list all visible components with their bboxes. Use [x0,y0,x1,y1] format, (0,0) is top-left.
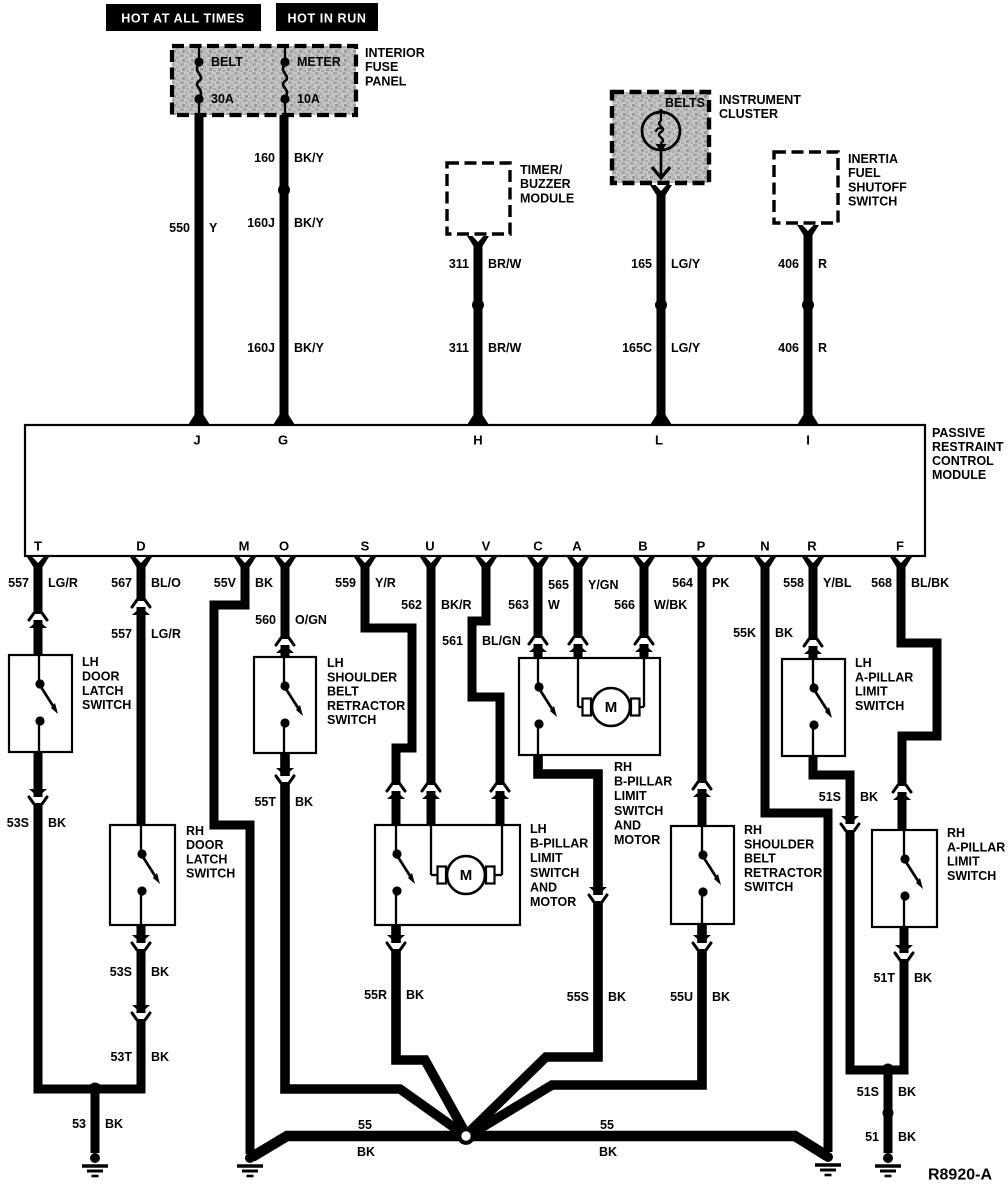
svg-text:BK: BK [255,576,273,590]
svg-text:BK: BK [898,1085,916,1099]
svg-text:BK/R: BK/R [441,598,472,612]
svg-text:SWITCH: SWITCH [855,699,904,713]
svg-text:564: 564 [672,576,693,590]
svg-text:Y/R: Y/R [375,576,396,590]
svg-text:55: 55 [358,1118,372,1132]
svg-text:51S: 51S [857,1085,879,1099]
svg-text:BK: BK [151,1050,169,1064]
svg-text:BELT: BELT [327,685,359,699]
svg-text:LG/Y: LG/Y [671,257,701,271]
svg-text:10A: 10A [297,92,320,106]
svg-text:HOT AT ALL TIMES: HOT AT ALL TIMES [121,12,244,26]
svg-text:SWITCH: SWITCH [848,195,897,209]
svg-text:SWITCH: SWITCH [82,698,131,712]
svg-text:H: H [473,433,482,448]
svg-text:INERTIA: INERTIA [848,152,898,166]
svg-text:55K: 55K [733,626,756,640]
svg-text:BK: BK [48,816,66,830]
svg-text:Y: Y [209,221,218,235]
svg-text:160J: 160J [247,216,275,230]
svg-text:SHUTOFF: SHUTOFF [848,180,907,194]
svg-text:SHOULDER: SHOULDER [744,837,814,851]
svg-text:SWITCH: SWITCH [947,869,996,883]
svg-text:557: 557 [8,576,29,590]
svg-text:CONTROL: CONTROL [932,454,994,468]
svg-text:51S: 51S [819,790,841,804]
svg-text:R: R [807,539,817,554]
svg-text:M: M [605,699,618,716]
svg-text:53T: 53T [110,1050,132,1064]
svg-text:53S: 53S [7,816,29,830]
svg-text:B-PILLAR: B-PILLAR [530,837,588,851]
svg-text:SWITCH: SWITCH [614,804,663,818]
svg-text:BR/W: BR/W [488,341,522,355]
svg-text:W/BK: W/BK [654,598,687,612]
svg-text:N: N [760,539,769,554]
svg-text:MOTOR: MOTOR [530,895,576,909]
svg-text:V: V [482,539,491,554]
svg-text:S: S [361,539,370,554]
svg-text:SWITCH: SWITCH [744,880,793,894]
svg-text:TIMER/: TIMER/ [520,163,563,177]
svg-text:BK: BK [914,971,932,985]
svg-text:560: 560 [255,613,276,627]
svg-text:LIMIT: LIMIT [855,685,888,699]
svg-text:BK: BK [105,1117,123,1131]
svg-text:METER: METER [297,55,341,69]
svg-text:160: 160 [254,151,275,165]
svg-text:53: 53 [72,1117,86,1131]
svg-text:R: R [818,257,827,271]
svg-text:BELT: BELT [744,852,776,866]
svg-text:BK/Y: BK/Y [294,216,325,230]
svg-text:RH: RH [947,826,965,840]
svg-text:311: 311 [449,341,469,355]
svg-text:Y/BL: Y/BL [823,576,852,590]
svg-text:INTERIOR: INTERIOR [365,46,425,60]
svg-text:BELTS: BELTS [665,96,705,110]
svg-text:55T: 55T [254,795,276,809]
svg-text:BL/O: BL/O [151,576,181,590]
svg-text:M: M [239,539,250,554]
svg-text:558: 558 [783,576,804,590]
svg-text:R8920-A: R8920-A [928,1167,992,1184]
svg-text:53S: 53S [110,965,132,979]
svg-text:P: P [697,539,706,554]
svg-text:55R: 55R [364,988,387,1002]
svg-text:L: L [655,433,663,448]
svg-text:O/GN: O/GN [295,613,327,627]
svg-text:55: 55 [600,1118,614,1132]
svg-text:BK: BK [151,965,169,979]
svg-text:406: 406 [778,341,799,355]
svg-text:LH: LH [327,656,344,670]
svg-text:F: F [896,539,904,554]
svg-text:BUZZER: BUZZER [520,177,571,191]
svg-text:LG/R: LG/R [48,576,78,590]
svg-text:LATCH: LATCH [186,852,227,866]
svg-text:BK: BK [775,626,793,640]
svg-text:INSTRUMENT: INSTRUMENT [719,93,801,107]
svg-text:C: C [533,539,543,554]
svg-text:A-PILLAR: A-PILLAR [855,670,913,684]
svg-text:LH: LH [530,822,547,836]
svg-text:BK: BK [898,1130,916,1144]
svg-text:BK: BK [608,990,626,1004]
svg-text:AND: AND [614,818,641,832]
svg-text:RH: RH [186,824,204,838]
svg-text:BR/W: BR/W [488,257,522,271]
svg-text:565: 565 [548,578,569,592]
svg-text:BK: BK [599,1145,617,1159]
svg-text:MOTOR: MOTOR [614,833,660,847]
svg-text:J: J [193,433,200,448]
svg-text:R: R [818,341,827,355]
svg-text:I: I [806,433,810,448]
svg-text:BK: BK [295,795,313,809]
svg-text:RETRACTOR: RETRACTOR [327,699,405,713]
svg-text:PK: PK [712,576,729,590]
svg-text:LIMIT: LIMIT [947,855,980,869]
svg-text:BK: BK [860,790,878,804]
svg-text:561: 561 [442,634,463,648]
svg-text:55S: 55S [567,990,589,1004]
svg-text:T: T [34,539,42,554]
svg-text:311: 311 [449,257,469,271]
svg-text:55U: 55U [670,990,693,1004]
svg-text:FUEL: FUEL [848,166,881,180]
svg-text:U: U [425,539,434,554]
svg-text:LH: LH [855,656,872,670]
svg-text:563: 563 [508,598,529,612]
svg-text:566: 566 [614,598,635,612]
svg-text:557: 557 [111,627,132,641]
svg-text:51T: 51T [873,971,895,985]
svg-text:RETRACTOR: RETRACTOR [744,866,822,880]
svg-text:RH: RH [744,823,762,837]
svg-text:M: M [460,867,473,884]
svg-text:559: 559 [335,576,356,590]
svg-text:BL/BK: BL/BK [911,576,949,590]
svg-text:BK/Y: BK/Y [294,151,325,165]
svg-text:SWITCH: SWITCH [327,713,376,727]
svg-text:G: G [278,433,288,448]
svg-text:LG/R: LG/R [151,627,181,641]
svg-text:SHOULDER: SHOULDER [327,670,397,684]
svg-text:O: O [279,539,289,554]
svg-text:RESTRAINT: RESTRAINT [932,440,1004,454]
svg-text:BK: BK [357,1145,375,1159]
svg-text:51: 51 [865,1130,879,1144]
svg-text:BELT: BELT [211,55,243,69]
svg-text:160J: 160J [247,341,275,355]
svg-text:SWITCH: SWITCH [186,867,235,881]
svg-text:BL/GN: BL/GN [482,634,521,648]
svg-text:FUSE: FUSE [365,60,398,74]
svg-text:LIMIT: LIMIT [530,851,563,865]
svg-text:567: 567 [111,576,132,590]
svg-text:B-PILLAR: B-PILLAR [614,775,672,789]
svg-text:562: 562 [401,598,422,612]
svg-text:MODULE: MODULE [520,191,574,205]
svg-text:BK/Y: BK/Y [294,341,325,355]
svg-text:DOOR: DOOR [82,669,120,683]
svg-text:LATCH: LATCH [82,684,123,698]
svg-text:W: W [548,598,560,612]
svg-text:165C: 165C [622,341,652,355]
svg-text:B: B [638,539,647,554]
svg-text:BK: BK [406,988,424,1002]
svg-text:30A: 30A [211,92,234,106]
svg-text:AND: AND [530,880,557,894]
svg-text:BK: BK [712,990,730,1004]
svg-text:PASSIVE: PASSIVE [932,426,985,440]
svg-text:55V: 55V [214,576,237,590]
svg-text:PANEL: PANEL [365,74,407,88]
svg-text:D: D [136,539,145,554]
svg-text:A: A [572,539,582,554]
svg-text:568: 568 [871,576,892,590]
svg-text:DOOR: DOOR [186,838,224,852]
svg-text:LG/Y: LG/Y [671,341,701,355]
svg-text:SWITCH: SWITCH [530,866,579,880]
svg-text:HOT IN RUN: HOT IN RUN [288,12,367,26]
svg-text:LH: LH [82,655,99,669]
svg-text:Y/GN: Y/GN [588,578,619,592]
svg-text:406: 406 [778,257,799,271]
svg-text:RH: RH [614,760,632,774]
svg-text:LIMIT: LIMIT [614,789,647,803]
svg-text:165: 165 [631,257,652,271]
svg-text:550: 550 [169,221,190,235]
svg-text:CLUSTER: CLUSTER [719,107,778,121]
svg-text:A-PILLAR: A-PILLAR [947,840,1005,854]
svg-text:MODULE: MODULE [932,468,986,482]
